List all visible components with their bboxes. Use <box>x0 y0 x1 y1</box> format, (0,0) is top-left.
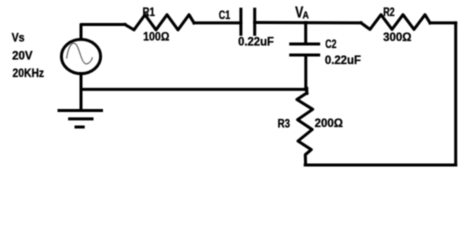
wire <box>81 25 125 39</box>
wire <box>80 74 83 111</box>
capacitor C2 <box>291 44 319 55</box>
svg-text:Vs: Vs <box>12 32 25 45</box>
resistor R2 <box>361 15 430 30</box>
node A <box>304 23 307 44</box>
resistor R3 <box>297 93 313 165</box>
svg-text:200Ω: 200Ω <box>315 117 343 130</box>
wire <box>430 21 456 24</box>
capacitor C1 <box>241 9 255 34</box>
svg-text:300Ω: 300Ω <box>383 31 411 44</box>
svg-text:20KHz: 20KHz <box>13 67 45 80</box>
voltage source Vs <box>61 39 100 73</box>
ground <box>59 111 102 128</box>
svg-text:C1: C1 <box>219 9 231 22</box>
wire <box>304 56 307 90</box>
svg-text:100Ω: 100Ω <box>143 31 169 44</box>
wire <box>305 88 308 93</box>
svg-text:0.22uF: 0.22uF <box>238 36 274 49</box>
wire <box>305 164 456 167</box>
svg-text:R1: R1 <box>143 6 156 19</box>
wire <box>81 88 306 91</box>
svg-text:R3: R3 <box>278 118 291 131</box>
svg-text:A: A <box>303 11 310 22</box>
svg-text:20V: 20V <box>12 50 33 63</box>
wire <box>255 21 361 24</box>
svg-text:C2: C2 <box>325 38 336 51</box>
wire <box>194 21 241 24</box>
resistor R1 <box>125 15 194 30</box>
svg-text:0.22uF: 0.22uF <box>325 54 361 67</box>
svg-text:R2: R2 <box>383 6 395 19</box>
wire <box>454 23 457 165</box>
